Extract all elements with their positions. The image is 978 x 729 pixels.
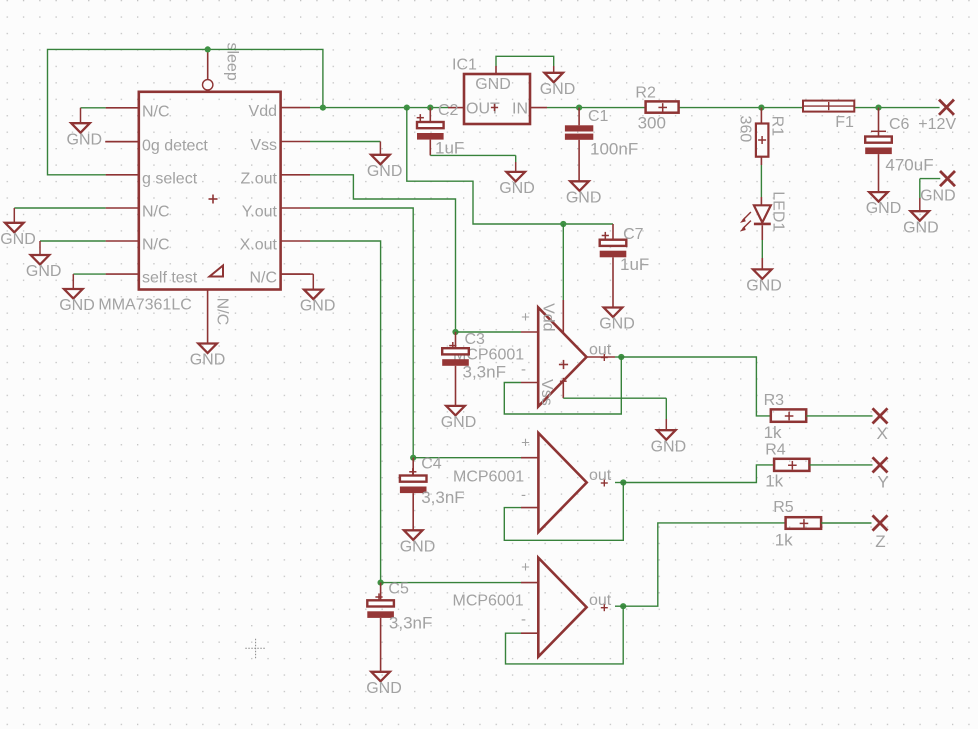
IC pin self test (left, y=274.1) <box>106 270 198 287</box>
resistor R5 1k <box>773 499 821 549</box>
svg-text:Vss: Vss <box>250 137 277 154</box>
ground GND (C4) <box>400 530 436 555</box>
ground GND (N/C pin 3) <box>26 255 62 280</box>
wire GND flag to ground <box>920 179 941 212</box>
svg-text:Y.out: Y.out <box>242 204 278 221</box>
capacitor C7 1uF <box>600 224 650 308</box>
wire Y.out to C4 node <box>310 208 413 458</box>
svg-text:R3: R3 <box>764 392 785 409</box>
wire N/C1 to ground <box>81 108 106 123</box>
svg-text:3,3nF: 3,3nF <box>389 614 432 633</box>
IC1 pin IN <box>530 107 547 109</box>
svg-text:360: 360 <box>737 116 754 143</box>
svg-text:1k: 1k <box>775 530 793 549</box>
op-amp U1 MCP6001 <box>521 300 615 407</box>
svg-text:GND: GND <box>400 538 436 555</box>
svg-text:GND: GND <box>920 188 956 205</box>
svg-text:+: + <box>521 435 530 452</box>
svg-text:X.out: X.out <box>240 237 278 254</box>
svg-text:Y: Y <box>877 472 888 491</box>
IC label MMA7361LC <box>98 297 191 314</box>
wire R4 to Y flag <box>809 464 872 466</box>
svg-text:N/C: N/C <box>142 204 170 221</box>
wire rail segment 4 (F1 to +12V) <box>854 107 939 109</box>
svg-text:GND: GND <box>866 200 902 217</box>
svg-text:R5: R5 <box>773 499 794 516</box>
wire Y net op-amp2 to R4 <box>623 465 774 483</box>
IC MMA7361LC body <box>139 92 281 290</box>
svg-text:IN: IN <box>512 101 528 118</box>
capacitor C4 3,3nF <box>400 455 465 530</box>
wire Vss to ground <box>310 142 380 155</box>
svg-text:C4: C4 <box>421 455 442 472</box>
IC pin N/C (left, y=241) <box>106 237 170 254</box>
IC pin Y.out (right, y=208) <box>242 204 310 221</box>
capacitor C3 3,3nF <box>442 331 506 406</box>
ground GND (flag) <box>903 211 939 236</box>
svg-text:300: 300 <box>638 113 666 132</box>
svg-text:C1: C1 <box>588 108 609 125</box>
svg-text:GND: GND <box>651 438 687 455</box>
node C5 junction <box>378 580 384 586</box>
node rail/power-stair junction <box>404 105 410 111</box>
svg-text:C7: C7 <box>623 226 644 243</box>
svg-text:GND: GND <box>67 131 103 148</box>
wire op-amp2 feedback <box>504 483 623 541</box>
svg-text:out: out <box>589 467 612 484</box>
svg-text:MCP6001: MCP6001 <box>453 593 524 610</box>
wire C5 node to op-amp3 +in <box>381 582 539 584</box>
ground GND (C3) <box>441 406 477 431</box>
svg-text:R4: R4 <box>765 442 786 459</box>
svg-text:GND: GND <box>475 76 511 93</box>
net flag +12V <box>918 100 956 134</box>
net flag Y <box>873 457 889 491</box>
svg-text:-: - <box>521 611 526 628</box>
svg-text:R2: R2 <box>635 85 656 102</box>
wire stub 0g detect to GND label <box>105 141 139 143</box>
IC pin 0g detect (left, y=141.7) <box>106 137 209 154</box>
svg-text:+: + <box>521 309 530 326</box>
IC pin Vss (right, y=141.5) <box>250 137 310 154</box>
IC pin Vdd (right, y=107.6) <box>249 103 310 120</box>
regulator IC1 body <box>452 57 530 125</box>
net flag X <box>873 408 888 443</box>
svg-text:GND: GND <box>26 263 62 280</box>
svg-text:sleep: sleep <box>224 42 241 80</box>
net flag Z <box>873 515 888 551</box>
ground GND (N/C right) <box>300 290 336 315</box>
svg-text:100nF: 100nF <box>590 140 638 159</box>
resistor R2 300 <box>635 85 678 133</box>
op-amp U3 label MCP6001 <box>453 593 524 610</box>
svg-text:X: X <box>877 424 888 443</box>
svg-text:N/C: N/C <box>142 103 170 120</box>
svg-text:Vdd: Vdd <box>249 103 277 120</box>
wire IC1 GND pin to ground <box>496 56 554 74</box>
svg-text:1k: 1k <box>764 423 782 442</box>
resistor R4 1k <box>765 442 809 491</box>
wire C3 node to op-amp1 +in <box>456 331 539 333</box>
svg-text:-: - <box>521 361 526 378</box>
wire op-amp1 Vdd to supply <box>562 224 564 300</box>
wire rail segment 2 (IN to R2) <box>547 107 646 109</box>
svg-text:470uF: 470uF <box>885 156 933 175</box>
node rail/R1 junction <box>758 105 764 111</box>
ground GND (IC1) <box>540 73 576 98</box>
op-amp U2 label MCP6001 <box>453 469 524 486</box>
IC pin Z.out (right, y=174.8) <box>241 170 310 187</box>
svg-text:GND: GND <box>366 680 402 697</box>
capacitor C6 470uF <box>865 108 933 193</box>
svg-text:GND: GND <box>441 414 477 431</box>
node rail/C1 junction <box>576 105 582 111</box>
wire op-amp1 Vss to ground <box>563 398 666 430</box>
wire C2 to ground <box>430 155 515 172</box>
svg-text:C3: C3 <box>465 331 486 348</box>
ground GND (C2) <box>499 172 535 197</box>
ground GND (LED1) <box>746 269 782 294</box>
wire op-amp1 feedback <box>504 357 621 414</box>
capacitor C2 <box>417 102 465 157</box>
svg-text:GND: GND <box>0 231 36 248</box>
IC pin N/C (left, y=107.8) <box>106 103 170 120</box>
svg-text:C5: C5 <box>388 581 409 598</box>
net flag GND with cross <box>920 171 956 205</box>
wire rail segment 3 (R2 to F1) <box>679 107 803 109</box>
wire X.out to C5 node <box>310 241 381 583</box>
svg-text:+12V: +12V <box>918 116 956 133</box>
node rail/sleep-loop junction <box>320 105 326 111</box>
svg-text:-: - <box>521 487 526 504</box>
node sleep junction <box>205 46 211 52</box>
svg-text:C6: C6 <box>889 116 910 133</box>
ground GND (N/C pin 1) <box>67 123 103 148</box>
svg-text:N/C: N/C <box>214 298 231 326</box>
IC pin N/C (bottom) <box>208 290 231 344</box>
resistor R3 1k <box>764 392 807 442</box>
wire Z net op-amp3 to R5 <box>623 523 785 606</box>
wire self test to ground <box>73 274 105 289</box>
ground GND (C7) <box>599 308 635 333</box>
svg-text:C2: C2 <box>438 102 459 119</box>
op-amp U1 label MCP6001 <box>453 347 524 364</box>
svg-text:Z.out: Z.out <box>241 170 278 187</box>
svg-text:LED1: LED1 <box>769 191 786 231</box>
wire Vdd rail segment 1 <box>310 107 448 109</box>
svg-text:+: + <box>521 559 530 576</box>
svg-text:Vss: Vss <box>538 379 555 406</box>
wire N/C right to ground <box>281 274 314 290</box>
ground GND (C6) <box>866 192 902 217</box>
cursor crosshair <box>245 639 265 659</box>
wire op-amp3 feedback <box>506 606 624 664</box>
node op-amp2 out junction <box>620 479 626 485</box>
svg-text:g select: g select <box>142 170 198 187</box>
ground GND (C5) <box>366 672 402 697</box>
wire op-amp3 out stub <box>615 605 623 607</box>
capacitor C1 100nF <box>565 108 638 182</box>
ground GND (C1) <box>566 181 602 206</box>
IC pin sleep (top) with bubble <box>203 42 241 90</box>
svg-text:Vdd: Vdd <box>540 303 557 331</box>
resistor R1 360 <box>737 108 786 157</box>
ground GND (IC bottom pin) <box>190 344 226 369</box>
svg-text:3,3nF: 3,3nF <box>421 488 464 507</box>
op-amp U3 MCP6001 <box>521 558 612 657</box>
ground GND (N/C pin 2) <box>0 223 36 248</box>
wire R1 to LED1 <box>760 157 762 206</box>
svg-text:GND: GND <box>59 297 95 314</box>
svg-text:0g detect: 0g detect <box>142 137 208 154</box>
svg-text:out: out <box>589 592 612 609</box>
ground GND (op-amp1 Vss) <box>651 430 687 455</box>
wire op-amp1 out stub <box>615 356 621 358</box>
svg-text:1uF: 1uF <box>435 138 464 157</box>
svg-text:GND: GND <box>300 298 336 315</box>
wire sleep loop to g select <box>48 49 323 174</box>
svg-text:Z: Z <box>875 532 885 551</box>
wire C4 node to op-amp2 +in <box>413 457 538 459</box>
svg-text:self test: self test <box>142 270 198 287</box>
wire LED1 to ground <box>761 225 763 269</box>
svg-text:MMA7361LC: MMA7361LC <box>98 297 191 314</box>
node opamp Vdd/C7 junction <box>560 221 566 227</box>
op-amp U2 MCP6001 <box>521 433 612 532</box>
wire R3 to X flag <box>806 415 872 417</box>
svg-text:GND: GND <box>599 316 635 333</box>
svg-text:1uF: 1uF <box>620 255 649 274</box>
svg-text:3,3nF: 3,3nF <box>463 363 506 382</box>
wire X net op-amp1 to R3 <box>621 357 771 416</box>
svg-text:GND: GND <box>367 163 403 180</box>
ground GND (Vss) <box>367 155 403 180</box>
svg-text:R1: R1 <box>768 116 785 137</box>
svg-text:GND: GND <box>903 219 939 236</box>
svg-text:GND: GND <box>190 352 226 369</box>
LED LED1 <box>740 191 786 231</box>
wire Z.out to C3 node <box>310 175 456 332</box>
svg-text:IC1: IC1 <box>452 57 477 74</box>
IC pin N/C (left, y=208) <box>106 204 170 221</box>
IC pin g select (left, y=174.8) <box>106 170 198 187</box>
svg-text:GND: GND <box>566 189 602 206</box>
node C3 junction <box>452 329 458 335</box>
svg-text:GND: GND <box>746 278 782 295</box>
svg-text:MCP6001: MCP6001 <box>453 469 524 486</box>
node op-amp1 out junction <box>618 354 624 360</box>
fuse F1 <box>803 101 854 131</box>
svg-text:GND: GND <box>540 81 576 98</box>
svg-text:F1: F1 <box>835 114 854 131</box>
capacitor C5 3,3nF <box>367 581 432 672</box>
node rail/C2 junction <box>427 105 433 111</box>
svg-text:GND: GND <box>499 180 535 197</box>
wire N/C2 to ground <box>14 208 105 223</box>
IC pin X.out (right, y=241) <box>240 237 310 254</box>
svg-text:N/C: N/C <box>142 237 170 254</box>
svg-text:1k: 1k <box>765 472 783 491</box>
wire power staircase <box>407 108 613 224</box>
node op-amp3 out junction <box>620 603 626 609</box>
svg-text:out: out <box>589 342 612 359</box>
svg-text:N/C: N/C <box>249 270 277 287</box>
node rail/C6 junction <box>875 105 881 111</box>
IC pin N/C (right, y=274.1) <box>249 270 310 287</box>
wire R5 to Z flag <box>821 522 871 524</box>
IC1 pin OUT <box>448 107 464 109</box>
wire N/C3 to ground <box>40 241 106 255</box>
node C4 junction <box>410 455 416 461</box>
wire op-amp2 out stub <box>615 482 623 484</box>
ground GND (self test) <box>59 289 95 314</box>
